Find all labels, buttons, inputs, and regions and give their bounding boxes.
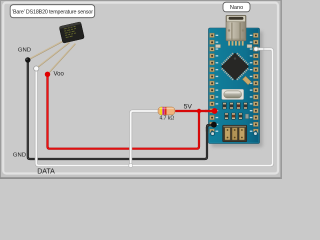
wire overlay: red 5V lead over board pads <box>205 110 215 112</box>
svg-text:Nano: Nano <box>230 5 243 11</box>
title label box <box>10 5 95 18</box>
Arduino Nano board shadow <box>211 31 262 147</box>
red wire: Voo dot down, along bottom, up to 5V junction <box>48 74 200 148</box>
Nano DATA pin connection dot <box>254 47 258 51</box>
DS18B20 sensor body <box>59 22 84 44</box>
junction dot 5V <box>197 109 201 113</box>
black wire: sensor GND down, along bottom, up to Nano GND pad <box>28 60 214 159</box>
mounting holes <box>211 132 215 136</box>
Nano left pin header pads <box>210 33 215 133</box>
svg-text:Voo: Voo <box>54 72 65 78</box>
SMD parts row 2 <box>225 113 249 119</box>
DS18B20 sensor legs <box>29 41 76 74</box>
Arduino Nano PCB <box>209 28 260 144</box>
red wire: resistor to Nano 5V pad <box>175 110 214 112</box>
terminal node DATA (white) <box>34 66 39 71</box>
MCU chip U1 (rotated 45°) <box>218 50 251 83</box>
resistor R1 4.7k body <box>158 107 175 115</box>
svg-text:5V: 5V <box>184 103 193 110</box>
svg-text:GND: GND <box>18 48 31 54</box>
terminal node Voo (red) <box>45 72 50 77</box>
inner bevel frame <box>3 3 278 174</box>
silkscreen pin labels left <box>216 35 219 132</box>
svg-text:DATA: DATA <box>37 168 55 175</box>
svg-text:’Bare’ DS18B20 temperature sen: ’Bare’ DS18B20 temperature sensor <box>12 10 93 16</box>
Nano 5V pad connection dot <box>212 108 218 114</box>
white wire branch: DATA line up to resistor <box>131 111 160 166</box>
Nano label box <box>223 2 250 12</box>
Nano right pin header pads <box>253 33 258 133</box>
ICSP header J1 <box>223 125 247 142</box>
small gold part below chip <box>242 76 251 85</box>
crystal oscillator Y1 <box>222 89 244 99</box>
canvas background <box>0 0 282 179</box>
silkscreen pin labels right <box>250 35 253 132</box>
svg-text:4.7 kΩ: 4.7 kΩ <box>160 116 175 122</box>
Nano GND pad connection dot <box>211 122 217 128</box>
mini-USB solder pins <box>228 40 243 46</box>
SMD parts row 1 <box>223 103 247 109</box>
svg-text:GND: GND <box>13 152 26 158</box>
white DATA wire: sensor middle dot down, along bottom, up right side to Nano pin <box>36 49 272 166</box>
wire overlay: white DATA lead over board pads <box>256 48 263 51</box>
wire overlay: black GND jog over board pads <box>207 125 214 132</box>
mini-USB connector U-USB <box>226 15 246 41</box>
terminal node GND (black) <box>25 57 30 62</box>
small caps near USB <box>216 45 221 48</box>
DATA junction dot <box>129 164 133 168</box>
